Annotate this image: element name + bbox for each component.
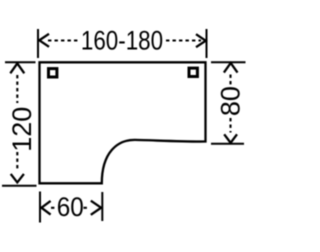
svg-text:120: 120 <box>7 107 37 152</box>
svg-text:80: 80 <box>215 86 245 116</box>
svg-text:160-180: 160-180 <box>81 26 163 55</box>
svg-text:60: 60 <box>57 193 84 222</box>
